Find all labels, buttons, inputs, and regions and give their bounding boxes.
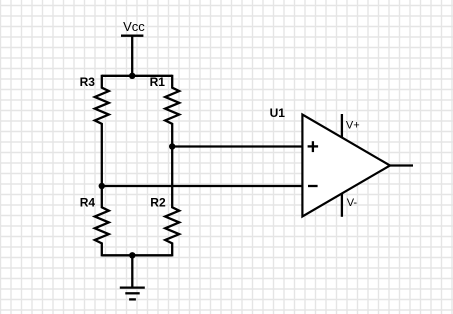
svg-text:V+: V+ bbox=[346, 119, 360, 131]
svg-text:V-: V- bbox=[347, 197, 358, 209]
svg-text:Vcc: Vcc bbox=[123, 19, 145, 34]
svg-text:R4: R4 bbox=[80, 195, 96, 209]
svg-text:R2: R2 bbox=[150, 195, 166, 209]
svg-text:U1: U1 bbox=[270, 106, 286, 120]
svg-text:R1: R1 bbox=[150, 75, 166, 89]
svg-text:R3: R3 bbox=[80, 75, 96, 89]
